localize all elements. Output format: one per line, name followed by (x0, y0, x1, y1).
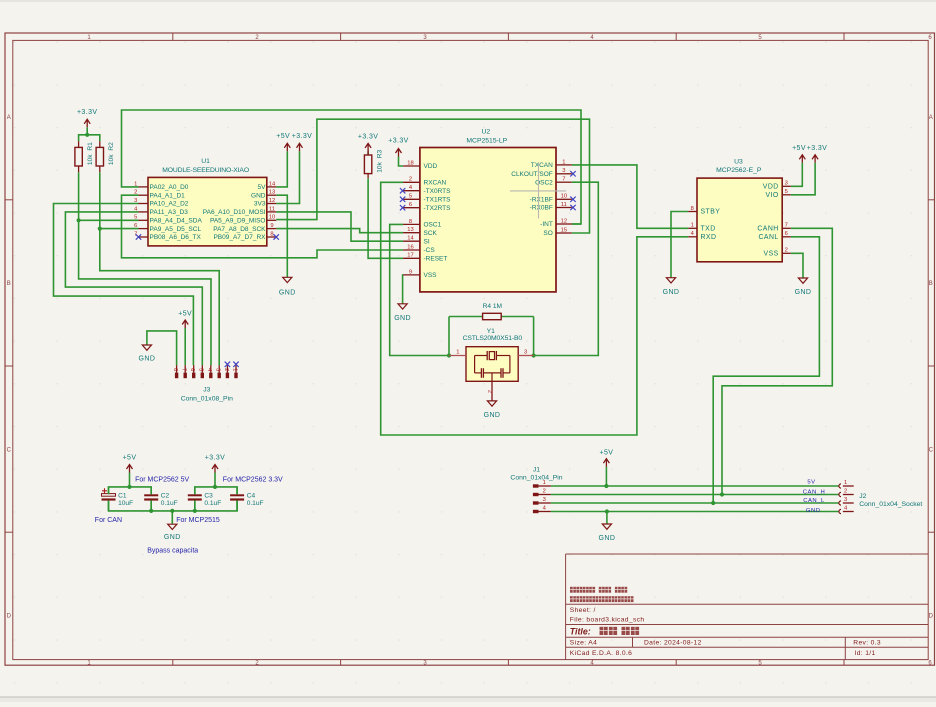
svg-text:CANH: CANH (757, 226, 778, 233)
svg-text:C1: C1 (118, 492, 127, 499)
no-connect U2 TX1RTS (400, 197, 405, 202)
svg-text:12: 12 (269, 198, 275, 204)
svg-text:GND: GND (484, 412, 501, 419)
svg-text:U1: U1 (201, 158, 210, 165)
wire OSC2 to Y1 (534, 182, 599, 355)
svg-text:VIO: VIO (765, 192, 778, 199)
svg-text:C2: C2 (161, 492, 170, 499)
connector J3 Conn_01x08_Pin (172, 365, 238, 402)
svg-text:5: 5 (198, 368, 204, 371)
svg-text:12: 12 (561, 218, 567, 224)
svg-text:6: 6 (409, 202, 412, 208)
svg-text:VDD: VDD (424, 163, 438, 170)
svg-text:3V3: 3V3 (254, 201, 266, 208)
wire U2 -INT stub (572, 223, 581, 225)
svg-text:+5V: +5V (178, 310, 192, 317)
IC U3 MCP2562-E_P (688, 159, 791, 262)
svg-text:3: 3 (543, 497, 546, 503)
svg-text:C: C (929, 448, 934, 454)
resistor R2 10k (96, 141, 115, 172)
wire R4 right lead (501, 316, 533, 318)
power +3.3V (U3 VIO) (807, 145, 828, 163)
svg-text:J3: J3 (203, 386, 210, 393)
svg-text:GND: GND (251, 192, 266, 199)
no-connect U2 TX2RTS (400, 205, 405, 210)
svg-text:0.1uF: 0.1uF (161, 500, 178, 507)
no-connect J3 pin2 (225, 362, 230, 367)
wire C3 C4 top (195, 487, 237, 494)
svg-text:MCP2562-E_P: MCP2562-E_P (716, 167, 762, 174)
svg-text:VDD: VDD (763, 184, 779, 191)
svg-text:A: A (929, 115, 933, 121)
svg-text:Y1: Y1 (487, 328, 496, 335)
power +3.3V (R1 R2) (77, 109, 98, 128)
svg-text:Rev: 0.3: Rev: 0.3 (853, 640, 881, 647)
wire CANH to bus (722, 228, 832, 494)
svg-text:+3.3V: +3.3V (292, 133, 313, 140)
svg-text:GND: GND (599, 535, 616, 542)
svg-text:3: 3 (215, 368, 221, 371)
wire net CAN_L (551, 502, 839, 504)
wire +5V to bus (605, 467, 607, 486)
power +3.3V (C3 C4) (205, 454, 226, 472)
svg-text:8: 8 (691, 206, 694, 212)
svg-text:8: 8 (409, 219, 412, 225)
wire J3 pin7 to +5V (184, 328, 186, 365)
ground (U3 STBY) (663, 278, 680, 296)
svg-text:2: 2 (223, 368, 229, 371)
junction SDA R1 (77, 218, 81, 222)
power +3.3V (R3) (358, 133, 379, 151)
svg-text:1: 1 (844, 480, 847, 486)
junction C1 +5V (127, 485, 131, 489)
svg-text:SO: SO (543, 230, 552, 237)
svg-text:For CAN: For CAN (95, 517, 122, 524)
svg-text:0.1uF: 0.1uF (247, 500, 264, 507)
svg-text:3: 3 (524, 350, 527, 356)
junction C3 +3.3V (213, 485, 217, 489)
svg-text:TXD: TXD (701, 226, 716, 233)
svg-text:For MCP2562 5V: For MCP2562 5V (135, 477, 189, 484)
wire R4 left (448, 317, 450, 356)
svg-text:GND: GND (394, 315, 411, 322)
svg-text:+3.3V: +3.3V (77, 109, 98, 116)
svg-text:1: 1 (691, 223, 694, 229)
svg-text:Id: 1/1: Id: 1/1 (855, 650, 876, 657)
svg-text:17: 17 (407, 253, 413, 259)
svg-text:MOUDLE-SEEEDUINO-XIAO: MOUDLE-SEEEDUINO-XIAO (162, 167, 249, 174)
capacitor C3 0.1uF (188, 487, 221, 511)
svg-text:2: 2 (134, 190, 137, 196)
svg-text:PA9_A5_D5_SCL: PA9_A5_D5_SCL (150, 226, 202, 233)
svg-text:SCK: SCK (424, 230, 438, 237)
wire D1 to U2 -CS (122, 195, 404, 258)
net label 5V (807, 479, 815, 485)
svg-text:GND: GND (164, 534, 181, 541)
svg-text:2: 2 (543, 488, 546, 494)
wire +3.3V stem (86, 127, 88, 135)
ground (bus) (599, 524, 616, 542)
svg-text:STBY: STBY (701, 209, 721, 216)
svg-text:5: 5 (409, 194, 412, 200)
svg-text:+3.3V: +3.3V (358, 133, 379, 140)
wire net 5V (551, 485, 839, 487)
svg-text:B: B (7, 281, 11, 287)
svg-text:+5V: +5V (599, 449, 613, 456)
svg-text:14: 14 (269, 181, 276, 187)
svg-text:6: 6 (189, 368, 195, 371)
power +5V (U1 pin14) (276, 133, 290, 151)
svg-text:10k: 10k (376, 161, 383, 172)
wire U3 VSS to GND (791, 253, 803, 278)
wire D3 to J3 pin5 (65, 212, 202, 365)
svg-text:MCP2515-LP: MCP2515-LP (466, 138, 507, 145)
svg-text:U2: U2 (481, 129, 490, 136)
power +5V (C1 C2) (123, 454, 137, 472)
svg-text:-TX2RTS: -TX2RTS (424, 205, 452, 212)
svg-text:GND: GND (806, 508, 821, 514)
wire R4 right (533, 317, 535, 356)
wire SDA (79, 219, 139, 221)
wire C2 bottom (150, 500, 152, 511)
wire GND pin13 (276, 195, 287, 277)
svg-text:For MCP2515: For MCP2515 (176, 517, 220, 524)
ground (Y1 pin2) (484, 381, 501, 419)
wire U3 VDD to +5V (791, 163, 803, 187)
ground (J3 pin8) (139, 345, 156, 362)
capacitor C1 10uF (102, 487, 134, 511)
svg-text:-RX1BF: -RX1BF (530, 197, 553, 204)
wire U2 VSS to GND (402, 275, 405, 304)
svg-text:3: 3 (844, 497, 847, 503)
svg-text:A: A (7, 115, 11, 121)
svg-text:3: 3 (785, 181, 788, 187)
svg-text:+3.3V: +3.3V (388, 137, 409, 144)
ground (U3 VSS) (795, 278, 812, 296)
svg-text:-INT: -INT (540, 221, 553, 228)
svg-text:15: 15 (561, 227, 567, 233)
svg-text:GND: GND (663, 289, 680, 296)
svg-text:1: 1 (231, 368, 237, 371)
resistor R3 10k (364, 149, 383, 178)
net label CAN_L (803, 498, 825, 504)
wire D2 to J3 pin6 (54, 204, 194, 366)
wire TXCAN to U3 TXD (572, 165, 689, 228)
no-connect U2 RX1BF (570, 197, 575, 202)
note Bypass capacita (147, 548, 198, 555)
note For MCP2515 (176, 517, 220, 524)
no-connect U1 pin7 (136, 234, 141, 239)
svg-text:+5V: +5V (123, 454, 137, 461)
svg-text:File: board3.kicad_sch: File: board3.kicad_sch (570, 616, 645, 623)
svg-text:-RX0BF: -RX0BF (530, 205, 553, 212)
svg-text:10k: 10k (108, 154, 115, 165)
svg-text:3: 3 (562, 168, 565, 174)
svg-text:PA11_A3_D3: PA11_A3_D3 (150, 209, 189, 216)
svg-text:5V: 5V (807, 479, 815, 485)
svg-text:Conn_01x04_Socket: Conn_01x04_Socket (859, 501, 922, 508)
svg-text:R4 1M: R4 1M (483, 303, 502, 310)
connector J2 Conn_01x04_Socket (839, 480, 923, 514)
svg-text:For MCP2562 3.3V: For MCP2562 3.3V (223, 476, 283, 483)
svg-text:+5V: +5V (276, 133, 290, 140)
svg-text:CANL: CANL (759, 234, 779, 241)
svg-text:J1: J1 (533, 467, 540, 474)
junction bus 5V (604, 484, 608, 488)
net label GND (806, 508, 821, 514)
svg-text:R1: R1 (87, 142, 94, 151)
junction bus CAN_H (720, 492, 724, 496)
note For MCP2562 5V (135, 477, 189, 484)
svg-text:GND: GND (795, 289, 812, 296)
svg-text:2: 2 (785, 248, 788, 254)
svg-text:10uF: 10uF (118, 500, 133, 507)
svg-text:-RESET: -RESET (424, 256, 448, 263)
wire R4 left lead (449, 316, 483, 318)
wire caps GND stem (171, 511, 173, 524)
svg-text:OSC2: OSC2 (535, 179, 553, 186)
wire MOSI to U2 SI (276, 212, 403, 241)
svg-text:R3: R3 (376, 149, 383, 158)
svg-text:PA5_A9_D9_MISO: PA5_A9_D9_MISO (210, 218, 266, 225)
svg-text:CSTLS20M0X51-B0: CSTLS20M0X51-B0 (463, 335, 523, 342)
svg-text:-TX1RTS: -TX1RTS (424, 197, 452, 204)
no-connect U2 CLKOUT (570, 171, 575, 176)
wire R3 to U2 -RESET (368, 178, 403, 258)
svg-text:Conn_01x08_Pin: Conn_01x08_Pin (181, 395, 233, 402)
resistor R1 10k (75, 141, 94, 172)
svg-text:PB09_A7_D7_RX: PB09_A7_D7_RX (213, 234, 266, 241)
svg-text:7: 7 (562, 177, 565, 183)
svg-text:VSS: VSS (424, 272, 438, 279)
svg-text:Size: A4: Size: A4 (570, 640, 597, 647)
svg-text:VSS: VSS (764, 251, 779, 258)
wire 3V3 pin12 (276, 151, 299, 203)
wire C1 C2 top (109, 487, 152, 494)
svg-text:+3.3V: +3.3V (205, 454, 226, 461)
svg-text:C: C (7, 448, 12, 454)
ground (caps) (164, 524, 181, 541)
junction caps gnd (170, 509, 174, 513)
svg-text:TXCAN: TXCAN (531, 162, 553, 169)
svg-text:PA8_A4_D4_SDA: PA8_A4_D4_SDA (150, 218, 203, 225)
svg-text:2: 2 (844, 488, 847, 494)
svg-text:RXCAN: RXCAN (424, 180, 447, 187)
svg-text:16: 16 (407, 244, 413, 250)
cursor crosshair (510, 163, 566, 219)
wire C3 bottom (194, 500, 196, 511)
svg-text:+5V: +5V (792, 145, 806, 152)
svg-text:11: 11 (269, 206, 275, 212)
svg-text:J2: J2 (859, 493, 866, 500)
svg-text:RXD: RXD (701, 234, 717, 241)
wire U3 VIO to +3.3V (791, 163, 815, 195)
resonator Y1 CSTLS20M0X51-B0 (449, 328, 534, 393)
svg-text:U3: U3 (734, 159, 743, 166)
wire SCL (100, 228, 139, 230)
svg-text:6: 6 (134, 223, 137, 229)
no-connect U2 RX0BF (570, 205, 575, 210)
svg-text:SI: SI (424, 238, 430, 245)
svg-text:D: D (7, 614, 12, 620)
svg-text:7: 7 (785, 223, 788, 229)
junction Y1 pin1 (447, 353, 451, 357)
svg-text:-TX0RTS: -TX0RTS (424, 188, 452, 195)
wire CANL to bus (713, 237, 819, 503)
wire U2 VDD to +3.3V (399, 157, 404, 167)
power +5V (J3 pin7) (178, 310, 192, 328)
junction SCL R2 (98, 227, 102, 231)
svg-text:6: 6 (785, 231, 788, 237)
svg-text:D: D (929, 614, 934, 620)
power +3.3V (U2 VDD) (388, 137, 409, 156)
note For MCP2562 3.3V (223, 476, 283, 483)
svg-text:13: 13 (407, 227, 413, 233)
svg-text:14: 14 (407, 236, 414, 242)
svg-text:2: 2 (486, 390, 492, 393)
svg-text:Sheet: /: Sheet: / (570, 607, 596, 614)
svg-text:Bypass capacita: Bypass capacita (147, 548, 198, 555)
wire U3 STBY to GND (671, 212, 688, 278)
svg-text:5: 5 (785, 189, 788, 195)
wire RXCAN to U3 RXD (381, 182, 689, 435)
svg-text:1: 1 (562, 159, 565, 165)
junction Y1 pin3 (532, 353, 536, 357)
svg-text:CLKOUT/SOF: CLKOUT/SOF (511, 171, 553, 178)
wire MISO to U2 SO (276, 119, 589, 233)
svg-text:Date: 2024-08-12: Date: 2024-08-12 (644, 640, 702, 647)
svg-text:9: 9 (270, 223, 273, 229)
net label CAN_H (803, 489, 825, 495)
svg-text:8: 8 (270, 231, 273, 237)
junction C2 gnd (149, 509, 153, 513)
title block (566, 554, 929, 660)
svg-text:11: 11 (561, 202, 567, 208)
svg-text:PA7_A8_D8_SCK: PA7_A8_D8_SCK (213, 226, 266, 233)
junction +3.3V R1 R2 (85, 133, 89, 137)
wire net CAN_H (551, 494, 839, 496)
svg-text:C3: C3 (204, 492, 213, 499)
ground (U2 VSS) (394, 304, 411, 322)
capacitor C4 0.1uF (230, 487, 263, 511)
power +5V (U3 VDD) (792, 145, 806, 163)
svg-text:GND: GND (279, 290, 296, 297)
svg-text:10: 10 (269, 215, 275, 221)
svg-text:1: 1 (134, 181, 137, 187)
svg-text:2: 2 (409, 177, 412, 183)
no-connect U1 pin8 (274, 234, 279, 239)
svg-text:Conn_01x04_Pin: Conn_01x04_Pin (510, 475, 562, 482)
svg-text:5V: 5V (258, 184, 267, 191)
svg-text:7: 7 (181, 368, 187, 371)
wire caps +5V stem (129, 473, 131, 487)
wire caps +3.3V stem (214, 473, 216, 487)
wire D0 to U2 -INT (122, 110, 582, 224)
power +3.3V (U1 3V3) (292, 133, 313, 151)
note For CAN (95, 517, 122, 524)
svg-text:C4: C4 (247, 492, 256, 499)
wire J3 pin8 to GND (147, 331, 177, 365)
svg-text:18: 18 (407, 160, 413, 166)
junction bus gnd (605, 509, 609, 513)
connector J1 Conn_01x04_Pin (510, 467, 562, 514)
ground (U1 pin13) (279, 277, 296, 296)
svg-text:9: 9 (409, 269, 412, 275)
wire R1 R2 tops to +3.3V (79, 135, 100, 141)
wire bus GND (606, 512, 608, 525)
svg-text:R2: R2 (108, 142, 115, 151)
wire R1 to J3 pin4 (79, 172, 211, 365)
svg-text:8: 8 (172, 368, 178, 371)
capacitor C2 0.1uF (144, 487, 177, 511)
svg-text:CAN_H: CAN_H (803, 489, 825, 495)
junction C3 gnd (193, 509, 197, 513)
wire R3 top (367, 151, 369, 155)
wire SCK to U2 SCK (276, 229, 403, 233)
no-connect J3 pin1 (233, 362, 238, 367)
wire R2 to J3 pin3 (100, 172, 219, 365)
svg-text:B: B (929, 281, 933, 287)
svg-text:PA02_A0_D0: PA02_A0_D0 (150, 184, 189, 191)
svg-text:+3.3V: +3.3V (807, 145, 828, 152)
svg-text:PA6_A10_D10_MOSI: PA6_A10_D10_MOSI (203, 209, 266, 216)
IC U1 MOUDLE-SEEEDUINO-XIAO (134, 158, 276, 246)
power +5V (bus) (599, 449, 613, 466)
svg-text:5: 5 (134, 215, 137, 221)
svg-text:3: 3 (134, 198, 137, 204)
svg-text:PA10_A2_D2: PA10_A2_D2 (150, 201, 189, 208)
wire caps bottom (109, 500, 238, 511)
svg-text:PA4_A1_D1: PA4_A1_D1 (150, 192, 186, 199)
svg-text:GND: GND (139, 355, 156, 362)
wire 5V pin14 (276, 151, 287, 187)
svg-text:1: 1 (456, 350, 459, 356)
svg-text:10: 10 (561, 194, 567, 200)
svg-text:KiCad E.D.A. 8.0.6: KiCad E.D.A. 8.0.6 (570, 650, 632, 657)
resistor R4 1M (483, 303, 502, 320)
svg-text:13: 13 (269, 190, 275, 196)
wire OSC1 to Y1 (390, 224, 449, 355)
svg-text:0.1uF: 0.1uF (204, 500, 221, 507)
svg-text:OSC1: OSC1 (424, 222, 442, 229)
wire net GND (551, 511, 839, 513)
junction bus CAN_L (711, 501, 715, 505)
IC U2 MCP2515-LP (403, 129, 572, 292)
svg-text:Title:: Title: (570, 626, 591, 636)
svg-text:PB08_A6_D6_TX: PB08_A6_D6_TX (150, 234, 202, 241)
svg-text:-CS: -CS (424, 247, 436, 254)
svg-text:10k: 10k (87, 154, 94, 165)
svg-text:CAN_L: CAN_L (803, 498, 825, 504)
no-connect U2 TX0RTS (400, 188, 405, 193)
